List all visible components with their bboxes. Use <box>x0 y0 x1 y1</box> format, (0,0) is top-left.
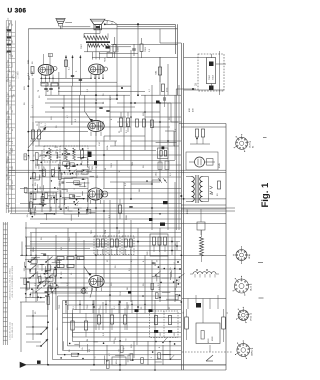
svg-text:...1: ...1 <box>9 96 11 99</box>
svg-text::I1: :I1 <box>6 205 8 207</box>
svg-text::l.1I: :l.1I <box>12 140 14 143</box>
svg-text:7013: 7013 <box>213 74 215 80</box>
svg-text:70: 70 <box>38 90 40 92</box>
svg-text:2M: 2M <box>58 285 60 288</box>
svg-text:10k: 10k <box>31 195 33 198</box>
svg-text:l.1: l.1 <box>9 85 11 87</box>
svg-text:::1I1l...IlI...1l.1.1I1I11.IlI: ::1I1l...IlI...1l.1.1I1I11.IlI111I..:I1.… <box>12 265 14 298</box>
svg-text:10k: 10k <box>158 356 160 359</box>
svg-text:o: o <box>7 31 9 32</box>
svg-text:25: 25 <box>29 276 31 279</box>
svg-text:7021: 7021 <box>91 230 93 234</box>
svg-text:10k: 10k <box>55 151 57 154</box>
svg-text:2M: 2M <box>57 187 59 190</box>
svg-text:I111:1: I111:1 <box>12 148 14 153</box>
svg-text:7031: 7031 <box>92 166 94 170</box>
svg-text:UY42: UY42 <box>251 315 253 321</box>
svg-text:7024: 7024 <box>105 230 107 234</box>
svg-text::IIi1:: :IIi1: <box>9 38 11 42</box>
svg-text:12: 12 <box>7 131 9 133</box>
svg-text:UCH: UCH <box>250 143 252 148</box>
svg-text:Fig. 1: Fig. 1 <box>260 182 270 208</box>
svg-text:12: 12 <box>10 106 12 108</box>
svg-text:U 306: U 306 <box>8 8 27 15</box>
svg-text:11.l1.:.IllIl:.:l.1..l:llI: 11.l1.:.IllIl:.:l.1..l:llI <box>12 323 14 338</box>
svg-text:0,1: 0,1 <box>170 173 172 176</box>
svg-text:7016: 7016 <box>105 58 107 62</box>
svg-text:12: 12 <box>7 156 9 158</box>
svg-text:7017: 7017 <box>81 43 83 49</box>
svg-text:MW: MW <box>7 171 9 174</box>
svg-text:0,1: 0,1 <box>96 165 98 168</box>
svg-text:IiI11.l: IiI11.l <box>12 185 14 190</box>
svg-text:1M: 1M <box>30 294 32 297</box>
svg-text:i.1: i.1 <box>6 92 8 94</box>
svg-text:7012: 7012 <box>209 74 211 80</box>
svg-text:7011: 7011 <box>145 47 147 52</box>
svg-text:11:ilI.: 11:ilI. <box>6 159 8 164</box>
svg-text:10k: 10k <box>40 175 42 178</box>
svg-text:6045: 6045 <box>219 162 221 168</box>
svg-text:1M: 1M <box>44 166 46 169</box>
svg-text:ab: ab <box>10 21 12 23</box>
svg-text:M: M <box>14 94 16 96</box>
svg-text:I.1I1: I.1I1 <box>9 138 11 142</box>
svg-text:50: 50 <box>105 168 107 170</box>
svg-text:1 M: 1 M <box>99 142 101 146</box>
svg-text:l1i:.l1: l1i:.l1 <box>12 63 14 67</box>
svg-text:2M: 2M <box>139 189 141 192</box>
svg-text:o: o <box>7 192 9 193</box>
svg-text:lII..I:: lII..I: <box>6 142 8 146</box>
svg-text::i:l:l:: :i:l:l: <box>6 173 8 177</box>
svg-text:10k: 10k <box>170 267 172 270</box>
svg-text:7035: 7035 <box>132 162 134 166</box>
svg-text:10k: 10k <box>82 347 84 350</box>
svg-text:.I1: .I1 <box>9 203 11 205</box>
svg-text:2M: 2M <box>87 338 89 341</box>
svg-text:.ll:II1: .ll:II1 <box>12 180 14 184</box>
svg-text:7031: 7031 <box>119 230 121 234</box>
svg-text:i.11I: i.11I <box>6 63 8 67</box>
svg-text:UAF42: UAF42 <box>251 349 254 356</box>
svg-text::.,::::lIIIl:I: :.,::::lIIIl:I <box>17 71 19 79</box>
svg-text:UL41: UL41 <box>251 285 253 291</box>
svg-text:1013: 1013 <box>156 172 158 176</box>
svg-text:12: 12 <box>7 60 9 62</box>
svg-text:o: o <box>7 165 9 166</box>
svg-text:ab: ab <box>7 183 9 185</box>
svg-text:10k: 10k <box>27 214 29 217</box>
svg-text:l1lI1: l1lI1 <box>12 166 14 169</box>
svg-text:10k: 10k <box>38 265 40 268</box>
svg-text:1018: 1018 <box>118 46 120 52</box>
svg-text:MW: MW <box>7 73 9 76</box>
svg-text:liIii1: liIii1 <box>9 69 11 72</box>
svg-text:12: 12 <box>7 168 9 170</box>
svg-text:1M: 1M <box>127 123 129 126</box>
svg-text:1M: 1M <box>127 287 129 290</box>
svg-text:1M: 1M <box>55 268 57 271</box>
svg-text:1:lI:.: 1:lI:. <box>12 39 14 43</box>
svg-text:ab: ab <box>7 33 9 35</box>
svg-text::::1: :::1 <box>6 27 8 30</box>
svg-text:ab: ab <box>7 18 9 20</box>
svg-text:MW: MW <box>10 82 12 85</box>
svg-text:I:Ill1: I:Ill1 <box>9 23 11 26</box>
